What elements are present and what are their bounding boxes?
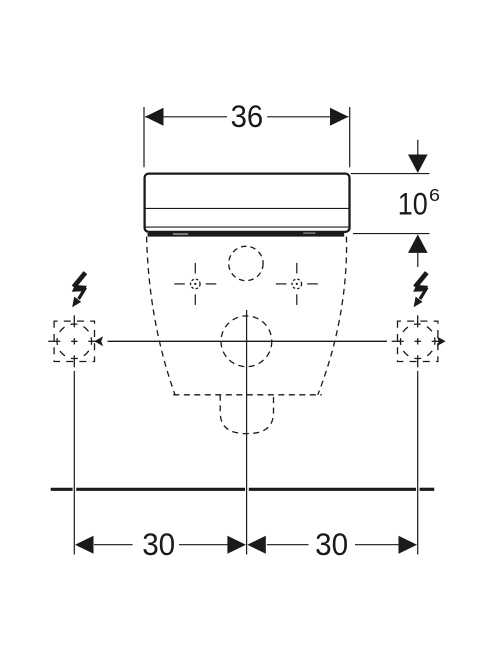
svg-text:30: 30 <box>142 526 175 562</box>
svg-text:6: 6 <box>429 185 440 205</box>
svg-text:30: 30 <box>315 526 348 562</box>
svg-text:36: 36 <box>231 98 264 134</box>
svg-text:10: 10 <box>398 186 428 222</box>
